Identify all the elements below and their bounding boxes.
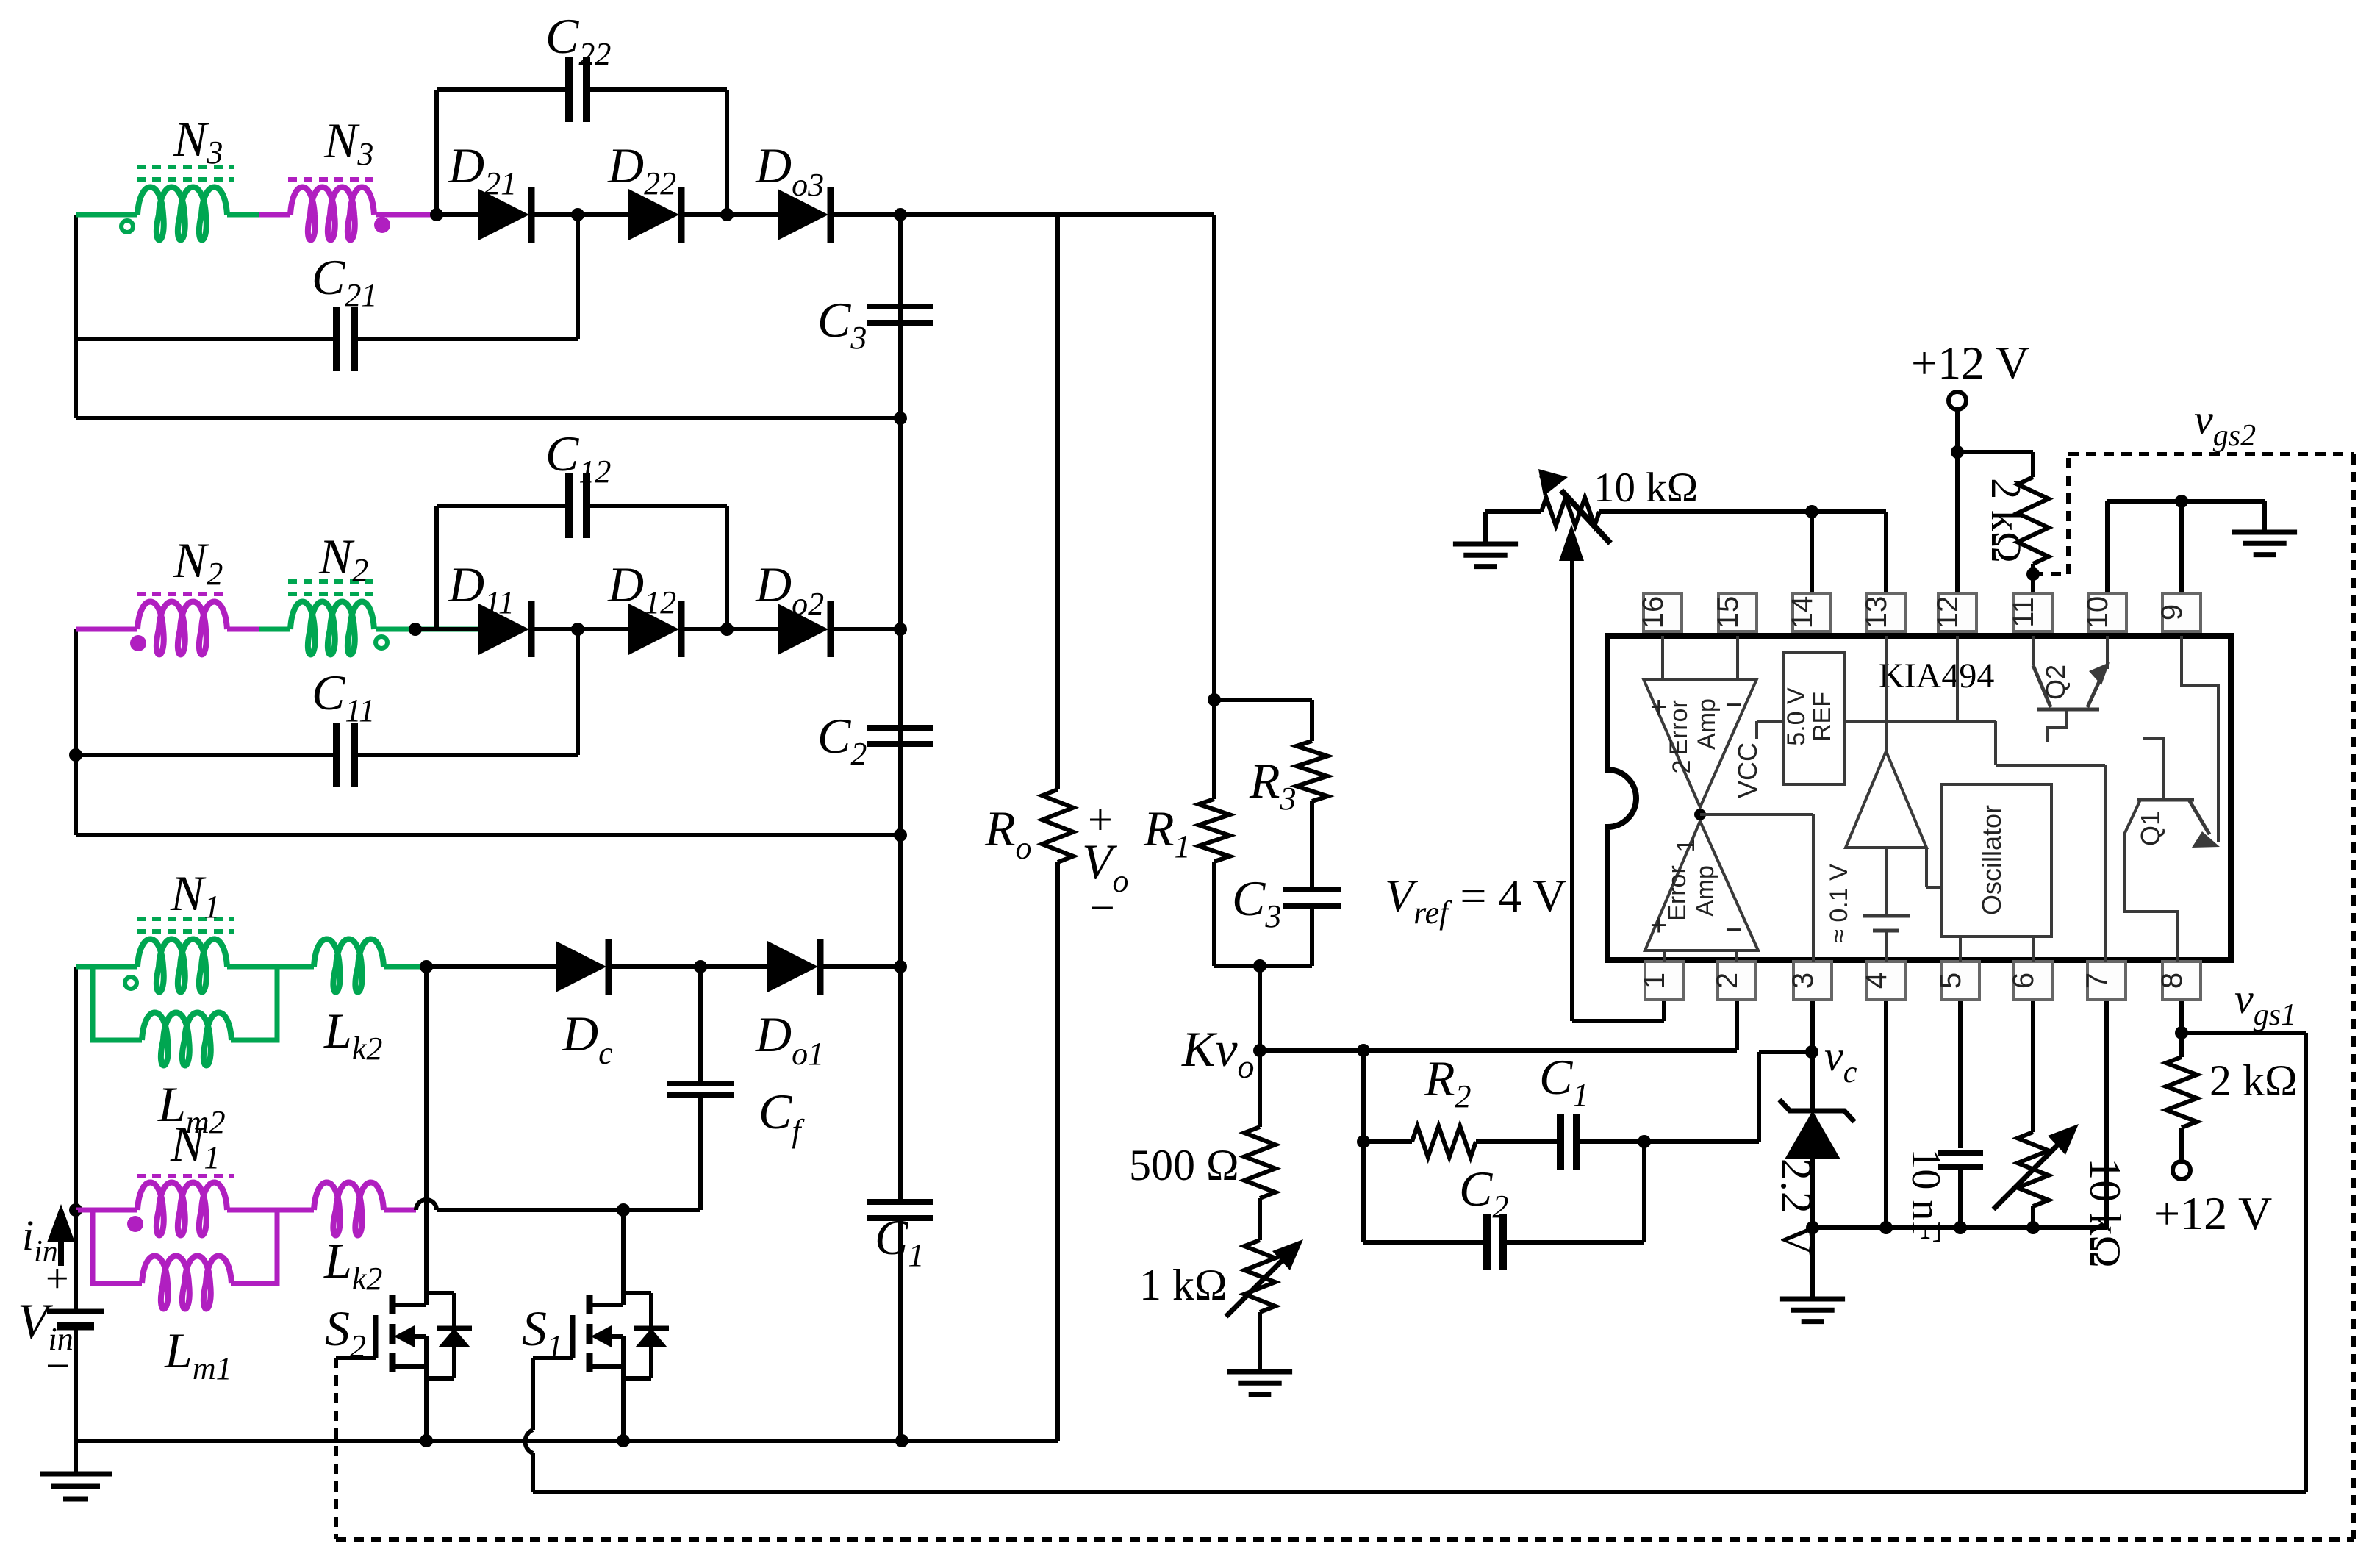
svg-text:15: 15 <box>1712 596 1744 629</box>
svg-text:Oscillator: Oscillator <box>1976 805 2007 915</box>
node pin11 / vgs2 tap <box>2026 567 2040 581</box>
capacitor C2 (output) <box>867 725 933 731</box>
svg-text:+: + <box>46 1256 69 1302</box>
wire pot ground stub <box>1483 512 1488 544</box>
svg-text:12: 12 <box>1932 596 1964 629</box>
wire Do3 to output rail <box>831 212 900 217</box>
ground (pot) <box>1453 542 1518 547</box>
capacitor C22 <box>565 57 573 122</box>
transistor S1 (MOSFET) <box>587 1295 593 1314</box>
wire pin9 up <box>2179 501 2184 595</box>
wire pin8 node to vgs1 riser <box>2182 1031 2306 1035</box>
wire R1 bottom joining line <box>1212 862 1216 966</box>
winding Lm2 parallel loop (green) <box>93 967 142 1040</box>
svg-text:Q1: Q1 <box>2135 811 2165 846</box>
wire node to D21 <box>437 212 478 217</box>
pin 4 <box>1867 962 1905 1000</box>
svg-text:Error: Error <box>1665 700 1693 756</box>
wire vgs2 dashed right edge down <box>2351 454 2356 1539</box>
svg-text:1 kΩ: 1 kΩ <box>1139 1261 1227 1309</box>
zener diode 2.2V cathode bar <box>1779 1100 1854 1122</box>
ground (input) <box>40 1472 112 1477</box>
wire pin15 to EA2- <box>1736 636 1739 679</box>
wire Do1 to rail <box>820 964 900 969</box>
wire D11 to D12 with junction <box>531 627 628 631</box>
wire branch down <box>1361 1050 1366 1242</box>
wire R1 branch from output top line <box>1212 215 1216 799</box>
wire node to Dc <box>426 964 556 969</box>
capacitor C12 wire right <box>586 504 727 508</box>
wire pot to pins 14/13 <box>1599 509 1886 514</box>
svg-text:16: 16 <box>1637 596 1669 629</box>
svg-text:+12 V: +12 V <box>2154 1187 2272 1239</box>
svg-text:10 nF: 10 nF <box>1903 1148 1949 1243</box>
capacitor C21 wire left <box>76 337 337 341</box>
svg-text:2 kΩ: 2 kΩ <box>2209 1056 2298 1105</box>
svg-text:KIA494: KIA494 <box>1879 656 1994 695</box>
wire C3 bottom <box>1310 906 1314 966</box>
wire C1 to node B <box>1577 1139 1644 1144</box>
resistor 500 ohm <box>1244 1127 1275 1198</box>
winding N2 green dashed core marks <box>288 579 373 584</box>
svg-text:−: − <box>1090 884 1115 932</box>
svg-text:9: 9 <box>2156 604 2188 620</box>
pin 1 <box>1645 962 1683 1000</box>
wire between N3 windings <box>227 212 259 218</box>
capacitor Cf <box>667 1081 734 1086</box>
winding N1 green upper <box>76 964 137 970</box>
capacitor C21 wire right <box>354 337 578 341</box>
wire zener anode to bottom line <box>1810 1159 1815 1242</box>
wire tap to Kvo node <box>1258 966 1262 1050</box>
wire pin12 internal <box>1956 636 1959 721</box>
IC KIA494 body outline with notch <box>1607 636 2231 960</box>
wire zener node to ground <box>1810 1242 1815 1299</box>
winding N2 green (coupled inductor) <box>290 602 374 655</box>
wire C2 lower branch left <box>1363 1240 1485 1245</box>
wire to R2 <box>1363 1139 1412 1144</box>
pin 6 <box>2014 962 2052 1000</box>
wire 1kohm to ground <box>1258 1312 1262 1372</box>
wire hop to S1 drain node <box>437 1208 700 1212</box>
node S2 source on return <box>420 1434 433 1447</box>
wire v_gs1 solid bottom run <box>533 1490 2306 1494</box>
svg-text:11: 11 <box>2007 597 2040 628</box>
wire pin16 to EA2+ <box>1661 636 1664 679</box>
wire output top line to R1 branch <box>900 212 1214 217</box>
svg-text:Error: Error <box>1663 865 1691 921</box>
wire +12V down to node <box>1955 409 1960 452</box>
node C11 left <box>69 748 82 762</box>
wire Kvo down to 500ohm <box>1258 1050 1262 1127</box>
svg-text:3: 3 <box>1787 973 1819 989</box>
pin 8 <box>2162 962 2201 1000</box>
wire control ground bus <box>1813 1225 2107 1230</box>
svg-text:2 kΩ: 2 kΩ <box>1982 478 2030 563</box>
wire pin 6 down <box>2031 1000 2035 1132</box>
wire Cf riser bottom <box>698 1095 703 1210</box>
wire D21 to D22 with junction <box>531 212 628 217</box>
svg-text:+12 V: +12 V <box>1911 337 2029 389</box>
inductor Lk2 (green) <box>314 939 384 992</box>
wire oscillator to pin 5 <box>1959 937 1962 962</box>
wire Cf riser top <box>698 967 703 1084</box>
wire pin13 to comparator <box>1885 636 1888 751</box>
svg-text:REF: REF <box>1808 692 1836 742</box>
svg-text:5.0 V: 5.0 V <box>1782 687 1810 746</box>
capacitor C12 wire left <box>437 504 570 508</box>
terminal +12V (top) <box>1949 392 1966 409</box>
wire row1 bottom return <box>76 416 900 420</box>
inductor Lk2 (purple) <box>314 1183 384 1236</box>
wire row3 left vertical <box>74 967 78 1309</box>
wire node B to vc riser <box>1644 1139 1759 1144</box>
winding N3 green dashed core marks <box>137 165 234 169</box>
diode Dc <box>556 941 606 992</box>
resistor Ro <box>1042 789 1073 862</box>
box 5.0V REF <box>1783 653 1844 784</box>
node zener bottom <box>1806 1221 1819 1234</box>
wire N1 to Lk2 (green) <box>227 964 314 970</box>
resistor R2 <box>1412 1126 1476 1157</box>
node pin14 tap <box>1805 505 1818 518</box>
potentiometer arrow <box>1561 490 1610 543</box>
node Dc cathode / Cf top <box>694 960 707 973</box>
wire row2 bottom return <box>76 833 900 837</box>
node R2 branch <box>1357 1044 1370 1057</box>
wire Kvo to IC pin 2 <box>1260 1048 1737 1053</box>
polarity dot N2 green (open circle) <box>376 637 387 648</box>
potentiometer 10 kohm body <box>1541 498 1599 526</box>
pin 2 <box>1718 962 1756 1000</box>
diode D21 <box>478 189 529 240</box>
resistor 2 kohm (pin8) <box>2166 1057 2197 1128</box>
resistor R3 <box>1297 741 1327 801</box>
winding N3 purple dashed core marks <box>288 177 373 182</box>
pin 5 <box>1941 962 1979 1000</box>
svg-text:−: − <box>46 1342 71 1390</box>
wire C2 to right corner <box>1505 1240 1644 1245</box>
capacitor C11 riser to D11-D12 node <box>576 629 580 755</box>
wire hop over S2 drain line <box>416 1200 437 1210</box>
wire EA node to pin 3 <box>1700 813 1813 816</box>
polarity dot N1 purple <box>127 1216 143 1232</box>
svg-text:4: 4 <box>1860 973 1893 989</box>
polarity dot N3 green (open circle) <box>121 221 133 232</box>
svg-text:1: 1 <box>1672 839 1700 853</box>
capacitor C22 wire right <box>586 87 727 92</box>
transistor S2 (MOSFET) <box>390 1295 396 1314</box>
potentiometer wiper arrow <box>1570 544 1574 1021</box>
node rail ground <box>895 1434 908 1447</box>
wire D22 to node <box>681 212 778 217</box>
capacitor C3 (feedback) <box>1283 887 1341 892</box>
capacitor C3 (output) <box>867 304 933 309</box>
resistor 2 kohm (pin 11 pullup) <box>2018 477 2049 564</box>
offset battery 0.1V <box>1863 914 1910 918</box>
capacitor C1 (output) <box>867 1199 933 1205</box>
diode Do2 <box>778 604 828 655</box>
wire R3 to C3 <box>1310 801 1314 889</box>
node vc (pin 3) <box>1805 1045 1818 1059</box>
pin 9 <box>2162 593 2201 631</box>
wire pin14 drop <box>1810 512 1814 595</box>
node S1 source on return <box>617 1434 630 1447</box>
resistor 10 kohm (variable, timing) <box>2018 1132 2049 1206</box>
node D21-D22 / C21 tap <box>571 208 584 221</box>
wire REF to vcc rail right <box>1844 720 1996 723</box>
comparator (triangle) <box>1846 751 1926 848</box>
wire +12V node to pin 12 <box>1955 452 1960 595</box>
wire Vin to ground <box>74 1328 78 1474</box>
node R2 left <box>1357 1135 1370 1148</box>
node +12V distribution <box>1951 445 1964 459</box>
wire S1 gate down with hop over return <box>531 1358 535 1430</box>
ground (zener) <box>1780 1297 1845 1302</box>
node pin9 tie <box>2175 495 2188 508</box>
box Oscillator <box>1942 784 2051 937</box>
transistor Q2 (internal) <box>2032 636 2035 665</box>
wire pin 2 riser <box>1735 1000 1739 1050</box>
capacitor C1 (compensation) <box>1557 1114 1564 1170</box>
wire ground to pot <box>1485 509 1541 514</box>
resistor 1 kohm (variable) <box>1244 1240 1275 1312</box>
wire 500ohm to 1kohm <box>1258 1198 1262 1240</box>
wire Dc to Do1 junction <box>609 964 767 969</box>
capacitor C22 wire left <box>437 87 570 92</box>
polarity dot N3 purple <box>374 217 390 233</box>
capacitor C12 <box>565 473 573 538</box>
wire pin9 internal to Q1 emitter <box>2182 636 2218 842</box>
svg-text:VCC: VCC <box>1732 742 1763 798</box>
svg-text:Vref = 4 V: Vref = 4 V <box>1385 870 1567 931</box>
wire +12V node to 2k top <box>1957 450 2033 454</box>
wire oscillator to pin 6 <box>2032 937 2035 962</box>
pin 3 <box>1793 962 1832 1000</box>
wire vcc rail step to pin7 <box>1994 721 1997 765</box>
node rail row2 bottom <box>894 828 907 842</box>
node pin6 on bus <box>2026 1221 2040 1234</box>
svg-text:13: 13 <box>1860 596 1893 629</box>
wire output rail vertical <box>898 215 903 1202</box>
winding N3 purple (coupled inductor) <box>290 187 374 240</box>
terminal +12V (bottom) <box>2173 1161 2190 1179</box>
node rail row1 top <box>894 208 907 221</box>
wire Do2 to output rail <box>831 627 900 631</box>
capacitor C22 bracket left <box>434 90 439 215</box>
node rail row2 top <box>894 623 907 636</box>
node anode D21 / C22 left <box>430 208 443 221</box>
capacitor C11 <box>333 723 340 787</box>
capacitor 10 nF <box>1938 1150 1983 1156</box>
pin 7 <box>2087 962 2126 1000</box>
pin 16 <box>1644 593 1682 631</box>
winding N2 purple dashed core marks <box>137 592 226 596</box>
wire R3 branch top <box>1214 698 1312 702</box>
pin 15 <box>1718 593 1757 631</box>
transistor Q1 (internal) <box>2137 798 2194 802</box>
wire 2kohm to +12V terminal <box>2179 1128 2184 1161</box>
wire row2 left vertical <box>74 629 78 835</box>
ground (divider) <box>1227 1369 1292 1375</box>
svg-text:14: 14 <box>1786 596 1818 629</box>
svg-text:6: 6 <box>2007 973 2040 989</box>
polarity dot N1 green (open circle) <box>125 977 137 989</box>
wire Ro branch top <box>1055 215 1060 789</box>
wire battery to pin 4 <box>1885 931 1888 962</box>
diode D22 <box>628 189 679 240</box>
capacitor C11 wire right <box>354 753 578 757</box>
ground (pins 9-10) <box>2232 530 2297 535</box>
wire Ro bottom to return <box>1055 862 1060 1441</box>
winding N3 green (coupled inductor) <box>137 187 227 240</box>
wire row1 input (green) <box>76 212 137 218</box>
wire pin 7 down to bus end <box>2104 1000 2109 1228</box>
wire 10kohm to bus <box>2031 1206 2035 1228</box>
wire R2 to C1 <box>1476 1139 1560 1144</box>
capacitor C11 wire left <box>76 753 337 757</box>
wire pin1 to EA1+ <box>1663 950 1666 962</box>
node rail row3 <box>894 960 907 973</box>
node S1 drain <box>617 1203 630 1217</box>
wire pins 9-10 tie <box>2107 499 2265 504</box>
wire 10nF to bus <box>1958 1167 1963 1228</box>
zener diode 2.2V body <box>1785 1111 1840 1159</box>
svg-text:2: 2 <box>1711 973 1743 989</box>
wire row1 left vertical <box>74 215 78 418</box>
wire ground return line <box>76 1439 1058 1443</box>
pin 11 <box>2014 593 2052 631</box>
error amp 2 (triangle) <box>1644 679 1757 807</box>
wire v_gs1 riser right <box>2304 1033 2308 1492</box>
svg-text:Amp: Amp <box>1693 698 1721 750</box>
node Vin top / N1 purple input <box>69 1203 82 1217</box>
wire N3 to node <box>376 212 437 218</box>
node D11-D12 / C11 tap <box>571 623 584 636</box>
diode Do3 <box>778 189 828 240</box>
wire Lk2 to node S2 drain <box>384 964 426 970</box>
node pin8 / vgs1 <box>2175 1026 2188 1039</box>
node rail row1 bottom <box>894 412 907 425</box>
svg-text:10 kΩ: 10 kΩ <box>1594 465 1698 511</box>
pin 13 <box>1867 593 1905 631</box>
error amp 1 (triangle) <box>1645 821 1758 950</box>
pin 10 <box>2088 593 2126 631</box>
node Kvo <box>1253 1044 1266 1057</box>
svg-text:≈ 0.1 V: ≈ 0.1 V <box>1825 864 1853 943</box>
node error amp outputs <box>1694 809 1706 820</box>
winding N1 purple upper <box>76 1208 137 1213</box>
svg-text:2: 2 <box>1668 760 1696 774</box>
node divider tap <box>1253 959 1266 973</box>
wire N1 to Lk2 (purple) <box>227 1208 314 1213</box>
node R1 top / R3 branch <box>1208 693 1221 706</box>
wire v_gs2 dashed bottom run <box>336 1537 2354 1542</box>
wire pin3 down to zener <box>1810 1000 1815 1111</box>
svg-text:500 Ω: 500 Ω <box>1129 1141 1239 1189</box>
capacitor C12 bracket left <box>434 506 439 629</box>
winding N2 purple (coupled inductor) <box>137 602 227 655</box>
svg-text:Q2: Q2 <box>2040 665 2071 700</box>
wire S2 gate dashed (v_gs2) <box>334 1358 338 1539</box>
wire Lk2 to hop (purple) <box>384 1208 416 1213</box>
wire pin10 up <box>2105 501 2110 595</box>
wire pin 8 down to node <box>2179 1000 2184 1057</box>
wire row2 input (purple) <box>76 627 137 632</box>
wire wiper to pin 1 <box>1572 1019 1664 1023</box>
wire between N2 windings <box>227 627 259 632</box>
winding Lm1 parallel loop (purple) <box>93 1210 142 1283</box>
wire pin 4 down <box>1884 1000 1888 1228</box>
node pin5 on bus <box>1954 1221 1967 1234</box>
wire VCC stub <box>1757 720 1783 723</box>
resistor R1 <box>1199 799 1230 862</box>
pin 14 <box>1793 593 1831 631</box>
svg-text:10: 10 <box>2082 596 2114 629</box>
svg-text:5: 5 <box>1935 973 1967 989</box>
capacitor C21 riser to D21-D22 node <box>576 215 580 339</box>
svg-text:7: 7 <box>2081 973 2113 989</box>
capacitor C12 bracket right <box>725 506 729 629</box>
wire tie to ground <box>2262 501 2267 532</box>
pin 12 <box>1938 593 1976 631</box>
wire comparator to oscillator <box>1925 848 1928 887</box>
svg-text:−: − <box>1725 689 1742 721</box>
polarity dot N2 purple <box>130 635 146 651</box>
diode D12 <box>628 604 679 655</box>
wire vgs2 dashed from pin11 node <box>2033 572 2068 576</box>
svg-text:Amp: Amp <box>1691 865 1719 917</box>
winding N1 green dashed core marks <box>137 917 234 921</box>
winding N1 purple dashed core marks <box>137 1174 234 1178</box>
wire D12 to node <box>681 627 778 631</box>
node S2 drain / Dc anode <box>420 960 433 973</box>
wire pin13 drop <box>1884 512 1888 595</box>
wire N2 to node <box>376 627 478 632</box>
svg-text:8: 8 <box>2156 973 2188 989</box>
node D12 cathode / C12 right <box>720 623 734 636</box>
node C1-C2 right junction <box>1638 1135 1651 1148</box>
wire 2kohm to pin11 node <box>2031 564 2035 595</box>
diode Do1 <box>767 941 818 992</box>
current arrow i_in <box>58 1220 64 1266</box>
capacitor C22 bracket right <box>725 90 729 215</box>
node N2 output <box>409 623 422 636</box>
source Vin battery <box>74 1210 78 1309</box>
wire pin 5 down to 10nF <box>1958 1000 1963 1148</box>
wire pin2 to EA1- <box>1735 950 1738 962</box>
capacitor C2 (compensation) <box>1483 1214 1491 1270</box>
svg-text:−: − <box>1725 914 1742 946</box>
svg-text:1: 1 <box>1638 973 1671 989</box>
node pin4 on bus <box>1879 1221 1893 1234</box>
wire comparator to 0.1V battery <box>1885 848 1888 916</box>
capacitor C21 <box>333 307 340 371</box>
diode D11 <box>478 604 529 655</box>
node D22 cathode / C22 right <box>720 208 734 221</box>
